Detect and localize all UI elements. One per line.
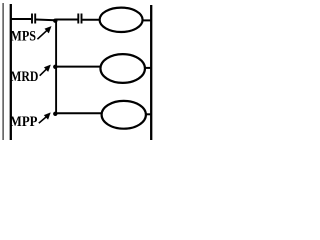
arrow from MPS label to node MPS	[37, 26, 51, 39]
node MPP (junction dot)	[53, 112, 57, 116]
wire: node MPP to coil 3	[56, 112, 101, 114]
svg-text:MPP: MPP	[10, 114, 38, 130]
svg-text:MPS: MPS	[10, 29, 36, 45]
contact 1 (normally-open)	[32, 14, 35, 24]
coil 2 (output, middle)	[100, 54, 145, 83]
right power rail	[150, 5, 152, 140]
wire: coil 3 to right rail	[146, 113, 151, 115]
node MPS (junction dot)	[53, 19, 57, 23]
wire: node MRD to coil 2	[56, 66, 101, 68]
vertical branch wire	[55, 20, 57, 114]
coil 1 (output, top)	[100, 8, 143, 32]
arrow from MRD label to node MRD	[40, 65, 51, 76]
left power rail	[10, 4, 12, 140]
node MRD (junction dot)	[53, 65, 57, 69]
coil 3 (output, bottom)	[102, 101, 146, 129]
wire: contact 2 to coil 1	[82, 19, 99, 21]
wire: coil 2 to right rail	[145, 67, 151, 69]
contact 2 (normally-open)	[78, 14, 81, 24]
arrow from MPP label to node MPP	[39, 113, 51, 124]
wire: contact 1 to node MPS	[36, 19, 55, 22]
wire: node MPS to contact 2	[56, 19, 78, 21]
wire: left rail to first contact	[10, 18, 31, 20]
svg-text:MRD: MRD	[10, 69, 38, 85]
wire: coil 1 to right rail	[143, 19, 151, 21]
